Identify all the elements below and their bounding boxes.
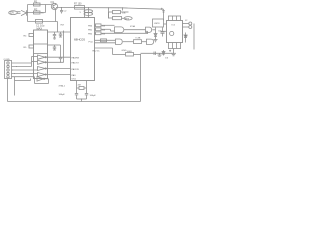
wire vertical rail — [27, 5, 29, 22]
crystal X1 oscillator — [76, 81, 78, 94]
gate G4 — [147, 39, 154, 44]
svg-text:RES: RES — [125, 18, 130, 20]
buffer A1 — [38, 55, 46, 59]
wire — [161, 30, 167, 32]
transistor Q1 — [51, 3, 57, 9]
transistor Q2 inside IC5 — [170, 31, 174, 35]
wire — [17, 11, 21, 13]
wire — [124, 29, 146, 31]
svg-text:IC5: IC5 — [172, 24, 176, 26]
wire top right drop — [163, 9, 165, 20]
node IN terminal oval — [9, 11, 18, 15]
svg-text:GND: GND — [122, 50, 127, 52]
wire — [95, 47, 113, 49]
wire — [84, 8, 86, 18]
resistor R9 — [96, 32, 102, 35]
wire — [48, 44, 61, 46]
wire to bottom inverter loop — [34, 77, 36, 84]
resistor R4 — [29, 34, 34, 37]
resistor R11 — [113, 17, 122, 20]
wire — [122, 8, 124, 11]
wire — [63, 31, 65, 63]
svg-text:OS1: OS1 — [72, 78, 77, 80]
svg-text:PA0/RX: PA0/RX — [72, 57, 80, 60]
wire J1 pins — [12, 62, 32, 64]
svg-text:V: V — [80, 12, 82, 14]
diode D1 — [21, 10, 27, 15]
capacitor C8 — [153, 52, 155, 56]
svg-text:C2: C2 — [64, 11, 68, 13]
svg-text:R5: R5 — [24, 47, 28, 49]
buffer A3 — [38, 67, 46, 71]
diode D3 — [163, 50, 165, 56]
wire IC5 top pins — [168, 15, 181, 17]
resistor R3 — [75, 6, 85, 10]
junction dots — [12, 7, 174, 100]
svg-text:Q1: Q1 — [51, 0, 55, 4]
svg-text:100R: 100R — [127, 51, 133, 53]
wire buffer outputs to U1 — [45, 56, 71, 58]
ground — [154, 39, 158, 41]
wire ground rail — [8, 101, 141, 103]
gate G2 — [146, 27, 152, 32]
svg-text:R4: R4 — [24, 35, 28, 37]
wire ground bus right — [141, 52, 173, 54]
wire — [77, 98, 87, 100]
wire — [45, 5, 47, 13]
svg-text:PA3: PA3 — [72, 74, 77, 77]
resistor R10 — [113, 11, 121, 14]
capacitor C11 — [162, 28, 164, 33]
wire — [123, 41, 134, 43]
wire — [44, 78, 49, 80]
resistor R7 — [96, 24, 102, 27]
svg-text:J2: J2 — [185, 20, 188, 22]
wire — [48, 31, 71, 33]
op-amp IC5 box — [167, 21, 183, 43]
svg-text:CON5: CON5 — [4, 59, 11, 61]
svg-text:XTAL1: XTAL1 — [59, 85, 66, 88]
resistor R12 — [101, 39, 107, 42]
svg-text:LM78: LM78 — [154, 23, 160, 25]
svg-text:PB2: PB2 — [88, 34, 93, 36]
svg-text:10k: 10k — [102, 34, 106, 36]
svg-text:D3: D3 — [165, 58, 169, 60]
op-amp U2 interface box — [34, 30, 48, 79]
component box IC3 — [134, 40, 142, 44]
svg-text:MAX: MAX — [37, 27, 43, 31]
svg-text:PA1/TX: PA1/TX — [72, 62, 80, 65]
wire — [27, 12, 28, 14]
capacitor C12 — [60, 45, 62, 58]
svg-text:R2: R2 — [34, 8, 38, 12]
svg-text:PA2/CK: PA2/CK — [72, 68, 80, 71]
wire ground drop — [7, 79, 9, 102]
wire from VCC to gate — [108, 8, 110, 19]
wire — [95, 39, 116, 41]
buffer A2 — [38, 60, 46, 64]
diode LED1 — [185, 33, 187, 43]
wire — [152, 29, 155, 31]
svg-text:10k: 10k — [122, 13, 126, 15]
text labels — [4, 0, 189, 97]
gate G1 — [115, 27, 124, 33]
wire — [31, 57, 33, 67]
svg-text:K2: K2 — [185, 36, 188, 38]
svg-text:10k: 10k — [102, 30, 106, 32]
wire mid branch — [28, 12, 46, 14]
wire IC5 bottom pins — [168, 48, 181, 50]
diode D2 — [155, 33, 157, 40]
wire bottom branch — [28, 21, 58, 23]
crystal X1 — [79, 87, 84, 90]
wire — [134, 54, 141, 56]
svg-text:12V: 12V — [10, 13, 15, 15]
svg-text:PC0: PC0 — [89, 42, 94, 44]
capacitor C4 — [60, 32, 62, 34]
resistor R5 — [29, 45, 34, 48]
fuse F1 oval — [124, 17, 132, 20]
op-amp IC4 box — [153, 19, 164, 27]
svg-text:R7 100: R7 100 — [74, 3, 82, 5]
connector J2 — [183, 23, 189, 25]
capacitor C7 — [85, 93, 88, 95]
ground — [159, 53, 161, 55]
resistor R8 — [96, 28, 102, 31]
capacitor C10 — [162, 10, 165, 12]
op-amp U1 microcontroller box — [71, 18, 95, 81]
capacitor C9 plus mark — [169, 50, 171, 52]
svg-text:IC3A: IC3A — [130, 25, 135, 28]
svg-text:4M: 4M — [78, 85, 81, 87]
capacitor C6 — [75, 93, 78, 95]
wire IC4 to IC5 — [164, 23, 167, 25]
capacitor C5 — [54, 45, 56, 47]
resistor R2 — [34, 11, 41, 14]
wire emitter down — [55, 10, 57, 22]
resistor R1 — [34, 3, 41, 6]
capacitor C3 — [54, 32, 56, 35]
svg-text:IC3B: IC3B — [136, 38, 141, 40]
svg-text:R1: R1 — [34, 0, 38, 4]
buffer A4 — [38, 73, 46, 77]
wire U2 supply — [57, 22, 59, 33]
gate G3 — [116, 39, 123, 45]
wire VCC rail — [58, 7, 121, 9]
svg-text:INT: INT — [61, 25, 65, 27]
svg-text:PB1: PB1 — [88, 30, 93, 32]
svg-text:100pF: 100pF — [90, 95, 97, 97]
svg-text:10k: 10k — [102, 26, 106, 28]
buffer A5 — [37, 77, 44, 82]
inverter bubbles — [45, 57, 46, 58]
wire top branch — [28, 4, 52, 6]
svg-text:68HC05: 68HC05 — [74, 38, 85, 42]
ground right — [171, 52, 176, 54]
connector J1 — [5, 61, 12, 79]
svg-text:1k: 1k — [41, 13, 44, 15]
wire — [95, 24, 96, 26]
svg-text:100pF: 100pF — [59, 94, 66, 96]
capacitor C1 — [36, 20, 43, 24]
wire — [88, 8, 90, 18]
svg-text:R12 1k: R12 1k — [93, 50, 101, 52]
transformer T1 coil ellipses — [84, 10, 93, 13]
svg-text:PB0: PB0 — [88, 26, 93, 28]
capacitor C2 — [61, 8, 63, 11]
component box IC6 — [126, 53, 134, 57]
